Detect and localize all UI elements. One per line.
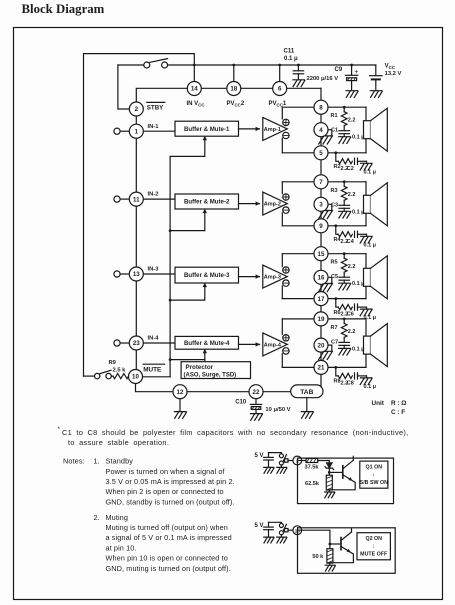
svg-text:IN-3: IN-3 xyxy=(148,267,160,273)
wire xyxy=(336,153,339,162)
svg-text:0.1 μ: 0.1 μ xyxy=(352,135,365,141)
junction xyxy=(278,64,281,67)
svg-text:+: + xyxy=(354,69,358,76)
svg-text:R3: R3 xyxy=(331,188,338,194)
svg-text:1: 1 xyxy=(135,128,139,135)
label MUTE (overlined) xyxy=(143,364,164,373)
buffer block Buffer & Mute-2 xyxy=(175,194,239,209)
wire output pin chain xyxy=(320,88,322,375)
transistor Q2 xyxy=(330,528,354,563)
pin 17 xyxy=(314,292,328,306)
svg-text:MUTE OFF: MUTE OFF xyxy=(360,552,388,558)
junction xyxy=(334,151,337,154)
svg-text:Unit: Unit xyxy=(372,400,385,407)
switch xyxy=(279,524,286,535)
switch xyxy=(279,454,286,465)
svg-text:37.5k: 37.5k xyxy=(305,465,320,471)
wire feedback loop left/top xyxy=(84,54,195,377)
capacitor C4 0.1u xyxy=(355,231,367,237)
wire xyxy=(280,535,282,537)
capacitor C6 0.1u xyxy=(355,304,367,310)
arrow into buffer 1 xyxy=(203,136,207,140)
wire xyxy=(328,277,332,283)
resistor 37.5k (box style) xyxy=(306,459,318,463)
svg-text:C10: C10 xyxy=(235,399,247,405)
svg-text:IN-1: IN-1 xyxy=(148,124,160,130)
wire 5V feed xyxy=(269,453,282,454)
svg-text:2.5 k: 2.5 k xyxy=(113,368,127,374)
svg-text:0.1 μ: 0.1 μ xyxy=(352,346,365,352)
pin 6 xyxy=(273,82,287,96)
wire pin 2 to PVcc row xyxy=(136,88,321,102)
input terminal IN-4 xyxy=(114,340,129,346)
wire output top xyxy=(282,181,366,183)
switch pole xyxy=(285,529,288,532)
wire xyxy=(351,65,353,75)
svg-text:14: 14 xyxy=(191,86,198,93)
svg-text:Buffer & Mute-3: Buffer & Mute-3 xyxy=(184,272,230,279)
wire buffer to amp xyxy=(239,343,260,345)
label STBY (overlined) xyxy=(147,102,165,111)
wire output bottom xyxy=(282,225,366,227)
wire output top xyxy=(282,253,366,255)
op-amp Amp-4 xyxy=(263,333,288,356)
svg-text:Block Diagram: Block Diagram xyxy=(22,2,105,16)
capacitor C11 xyxy=(293,71,303,80)
svg-text:15: 15 xyxy=(318,251,325,258)
resistor 62.5k (box style) xyxy=(326,475,332,490)
junction xyxy=(334,297,337,300)
junction xyxy=(334,366,337,369)
wire left pin chain xyxy=(135,102,137,370)
wire xyxy=(179,399,181,412)
junction xyxy=(169,358,172,361)
capacitor C5 0.1u xyxy=(339,277,350,283)
arrow into amp xyxy=(256,342,260,346)
wire xyxy=(343,126,345,131)
pin 4 xyxy=(314,123,328,137)
wire to protector xyxy=(204,360,206,362)
input terminal IN-1 xyxy=(114,128,129,134)
capacitor C7 0.1u xyxy=(339,342,350,348)
buffer block Buffer & Mute-4 xyxy=(175,336,239,349)
pin 18 xyxy=(227,82,241,96)
svg-text:50 k: 50 k xyxy=(312,554,324,560)
amp + output xyxy=(283,194,289,200)
ground xyxy=(360,378,372,385)
wire to mute switch xyxy=(84,375,95,377)
speaker SP1 xyxy=(364,107,388,153)
ground xyxy=(360,163,372,170)
resistor R1 2.2 xyxy=(341,112,347,126)
svg-text:18: 18 xyxy=(230,86,237,93)
wire riser pin 6 xyxy=(279,65,281,81)
capacitor xyxy=(264,457,274,467)
svg-text:Protector: Protector xyxy=(186,364,214,371)
wire xyxy=(318,461,330,463)
op-amp Amp-2 xyxy=(263,192,288,215)
wire xyxy=(336,299,339,308)
wire IN-3 to buffer xyxy=(143,273,175,275)
pin 13 xyxy=(129,267,143,281)
capacitor C10 (electrolytic) xyxy=(250,404,261,413)
svg-text:Amp-2: Amp-2 xyxy=(264,202,281,208)
svg-text:Standby: Standby xyxy=(106,457,134,466)
svg-text:(ASO, Surge, TSD): (ASO, Surge, TSD) xyxy=(184,373,237,379)
svg-text:Q1 ON: Q1 ON xyxy=(366,465,383,471)
svg-text:0.1 μ: 0.1 μ xyxy=(364,384,377,390)
ground xyxy=(360,309,372,316)
wire riser pin 21 xyxy=(320,375,322,392)
wire xyxy=(268,453,270,458)
svg-text:Buffer & Mute-2: Buffer & Mute-2 xyxy=(184,199,230,206)
wire xyxy=(328,204,332,210)
junction xyxy=(193,64,196,67)
capacitor C8 0.1u xyxy=(355,373,367,379)
wire xyxy=(375,65,377,75)
wire amp outputs xyxy=(281,107,283,153)
svg-text:2.2: 2.2 xyxy=(348,264,356,270)
wire switch to pin 2 xyxy=(118,65,129,109)
wire buffer to amp xyxy=(239,203,260,205)
switch pole xyxy=(285,459,288,462)
svg-text:C2: C2 xyxy=(347,166,354,172)
svg-text:Notes:: Notes: xyxy=(63,457,85,466)
svg-text:6: 6 xyxy=(278,86,282,93)
wire output bottom xyxy=(282,152,366,154)
pin 9 xyxy=(314,219,328,233)
svg-text:STBY: STBY xyxy=(147,105,164,112)
svg-text:0.1 μ: 0.1 μ xyxy=(352,281,365,287)
arrow into buffer xyxy=(203,283,207,287)
svg-text:10 μ/50 V: 10 μ/50 V xyxy=(265,407,290,413)
svg-text:62.5k: 62.5k xyxy=(305,481,320,487)
input terminal IN-3 xyxy=(114,271,129,277)
svg-text:0.1 μ: 0.1 μ xyxy=(364,242,377,248)
svg-text:R9: R9 xyxy=(109,360,117,366)
resistor R4 2.2 xyxy=(338,232,352,237)
pin 5 xyxy=(314,146,328,160)
pin 22 xyxy=(249,385,263,399)
pin 10 xyxy=(129,370,143,384)
svg-text:21: 21 xyxy=(318,365,325,372)
svg-text:Amp-1: Amp-1 xyxy=(264,127,281,133)
ground xyxy=(264,537,274,543)
wire bus branch xyxy=(170,210,205,230)
svg-text:R2: R2 xyxy=(334,164,341,170)
pin 19 xyxy=(314,312,328,326)
ground (mid pin) xyxy=(319,211,333,219)
label box Q2 xyxy=(357,533,390,560)
resistor R5 2.2 xyxy=(341,258,347,272)
pin 16 xyxy=(314,270,328,284)
svg-text:S/B SW ON: S/B SW ON xyxy=(360,480,388,486)
wire xyxy=(343,107,345,112)
junction xyxy=(350,64,353,67)
TAB pin xyxy=(291,385,323,398)
wire xyxy=(255,399,257,405)
wire xyxy=(328,490,330,492)
svg-text:17: 17 xyxy=(318,296,325,303)
wire bus branch xyxy=(170,284,205,300)
wire xyxy=(336,367,339,376)
ground TAB xyxy=(301,412,313,419)
svg-text:2.2: 2.2 xyxy=(348,118,356,124)
pin 15 xyxy=(314,247,328,261)
svg-text:R7: R7 xyxy=(331,325,338,331)
svg-text:5: 5 xyxy=(319,150,323,157)
svg-text:C9: C9 xyxy=(335,67,343,73)
wire riser pin 18 xyxy=(233,65,235,81)
wire IN-1 to buffer xyxy=(143,130,175,132)
wire IN-4 to buffer xyxy=(143,342,175,344)
ground xyxy=(251,414,263,421)
ground xyxy=(325,492,335,498)
svg-text:VCC: VCC xyxy=(385,64,396,71)
wire xyxy=(328,345,332,351)
junction xyxy=(329,543,332,546)
ground xyxy=(339,348,351,355)
arrow into amp xyxy=(256,201,260,205)
speaker SP2 xyxy=(364,182,388,226)
svg-text:C : F: C : F xyxy=(391,409,405,416)
wire xyxy=(328,130,332,136)
svg-text:to assure stable operation.: to assure stable operation. xyxy=(68,438,169,447)
wire xyxy=(288,529,293,531)
ground (mid pin) xyxy=(319,351,333,359)
capacitor xyxy=(264,527,274,537)
wire xyxy=(306,398,308,412)
svg-text:C6: C6 xyxy=(347,312,354,318)
svg-text:0.1 μ: 0.1 μ xyxy=(352,209,365,215)
svg-text:13.2 V: 13.2 V xyxy=(385,71,402,77)
svg-text:2200 μ/16 V: 2200 μ/16 V xyxy=(307,76,339,82)
svg-text:C8: C8 xyxy=(347,380,354,386)
speaker SP3 xyxy=(364,254,388,299)
svg-text:10: 10 xyxy=(132,374,139,381)
svg-text:IN-2: IN-2 xyxy=(148,192,159,198)
arrow into amp xyxy=(256,127,260,131)
wire output bottom xyxy=(282,298,366,300)
wire xyxy=(343,182,345,187)
svg-text:8: 8 xyxy=(319,104,323,111)
amp - output xyxy=(283,280,289,286)
svg-text:19: 19 xyxy=(318,316,325,323)
wire mute to bus xyxy=(143,376,171,378)
switch S2 (MUTE) xyxy=(95,370,112,379)
arrow into amp xyxy=(256,274,260,278)
svg-text:When pin 10 is open or connect: When pin 10 is open or connected to xyxy=(106,554,228,563)
svg-text:C1 to C8 should be polyester f: C1 to C8 should be polyester film capaci… xyxy=(62,428,408,437)
wire to base xyxy=(329,471,342,473)
svg-text:Amp-3: Amp-3 xyxy=(264,275,281,281)
wire amp outputs xyxy=(281,182,283,226)
ground pin 12 xyxy=(175,412,187,419)
resistor R8 2.2 xyxy=(338,373,352,378)
svg-text:4: 4 xyxy=(319,127,323,134)
wire xyxy=(280,465,282,467)
ground (mid pin) xyxy=(319,136,333,144)
ground xyxy=(339,137,351,144)
wire buffer to amp xyxy=(239,128,260,130)
junction xyxy=(169,299,172,302)
svg-text:PVCC2: PVCC2 xyxy=(227,101,245,108)
ground xyxy=(277,537,287,543)
svg-text:R : Ω: R : Ω xyxy=(391,400,406,407)
svg-text:0.1 μ: 0.1 μ xyxy=(364,169,377,175)
svg-text:TAB: TAB xyxy=(300,389,313,396)
wire amp outputs xyxy=(281,319,283,368)
junction xyxy=(232,64,235,67)
ground xyxy=(264,467,274,473)
svg-text:2.2: 2.2 xyxy=(348,329,356,335)
svg-text:5 V: 5 V xyxy=(255,523,264,529)
protector block xyxy=(181,362,250,379)
wire xyxy=(111,375,113,377)
capacitor C3 0.1u xyxy=(339,205,350,211)
op-amp Amp-1 xyxy=(263,117,288,140)
svg-text:0.1 μ: 0.1 μ xyxy=(364,315,377,321)
resistor R3 2.2 xyxy=(341,186,347,200)
capacitor C2 0.1u xyxy=(355,158,367,164)
label box Q1 xyxy=(360,461,388,488)
svg-text:3.5 V or 0.05 mA is impressed: 3.5 V or 0.05 mA is impressed at pin 2. xyxy=(106,477,235,486)
svg-text:Buffer & Mute-1: Buffer & Mute-1 xyxy=(184,126,230,133)
box xyxy=(298,528,396,574)
amp - output xyxy=(283,132,289,138)
resistor R6 2.2 xyxy=(338,305,352,310)
capacitor C9 (electrolytic) xyxy=(345,75,357,90)
junction xyxy=(343,252,346,255)
svg-text:Buffer & Mute-4: Buffer & Mute-4 xyxy=(184,340,230,347)
junction xyxy=(297,64,300,67)
pin 11 xyxy=(129,192,143,206)
wire xyxy=(297,65,299,71)
resistor R7 2.2 xyxy=(341,323,347,337)
wire bus branch xyxy=(170,351,205,360)
svg-text:When pin 2 is open or connecte: When pin 2 is open or connected to xyxy=(106,487,224,496)
wire xyxy=(268,522,270,527)
svg-text:2: 2 xyxy=(135,106,139,113)
wire xyxy=(298,530,330,549)
svg-text:IN VCC: IN VCC xyxy=(187,101,206,108)
ground xyxy=(293,80,305,87)
amp - output xyxy=(283,207,289,213)
junction xyxy=(328,471,331,474)
buffer block Buffer & Mute-1 xyxy=(175,121,239,136)
wire xyxy=(343,272,345,277)
wire to base xyxy=(330,543,341,545)
pin 21 xyxy=(314,360,328,374)
svg-text:GND, muting is turned on (outp: GND, muting is turned on (output off). xyxy=(106,564,231,573)
pin 14 xyxy=(187,82,201,96)
svg-text:11: 11 xyxy=(133,196,140,203)
arrow into buffer xyxy=(203,209,207,213)
wire output bottom xyxy=(282,366,366,368)
wire xyxy=(329,563,331,565)
svg-text:Muting is turned off (output o: Muting is turned off (output on) when xyxy=(106,523,228,532)
resistor 50k (box style) xyxy=(327,549,333,563)
svg-text:23: 23 xyxy=(133,340,140,347)
pin 7 xyxy=(314,175,328,189)
pin 8 xyxy=(314,100,328,114)
op-amp Amp-3 xyxy=(263,265,288,288)
box xyxy=(298,458,394,504)
arrow into buffer xyxy=(203,349,207,353)
speaker SP4 xyxy=(364,319,388,368)
svg-text:↓: ↓ xyxy=(372,472,375,478)
ground (mid pin) xyxy=(319,284,333,292)
wire xyxy=(328,472,330,475)
svg-text:2.2: 2.2 xyxy=(348,192,356,198)
pin 10 xyxy=(293,526,302,535)
buffer block Buffer & Mute-3 xyxy=(175,267,239,283)
svg-text:1.: 1. xyxy=(94,457,100,466)
wire riser pin 14 xyxy=(193,65,195,81)
wire control bus xyxy=(170,138,205,377)
svg-text:12: 12 xyxy=(177,389,184,396)
junction xyxy=(169,229,172,232)
wire xyxy=(343,200,345,205)
svg-text:C4: C4 xyxy=(347,239,355,245)
junction xyxy=(343,318,346,321)
svg-text:7: 7 xyxy=(319,179,323,186)
svg-text:Muting: Muting xyxy=(106,513,129,522)
wire xyxy=(343,254,345,259)
pin 20 xyxy=(314,338,328,352)
battery Vcc xyxy=(370,76,382,91)
svg-text:13: 13 xyxy=(133,271,140,278)
svg-text:R1: R1 xyxy=(331,113,338,119)
junction xyxy=(343,180,346,183)
wire xyxy=(343,319,345,324)
amp + output xyxy=(283,335,289,341)
svg-text:16: 16 xyxy=(318,275,325,282)
capacitor C1 0.1u xyxy=(339,131,350,137)
wire output top xyxy=(282,318,366,320)
svg-text:3: 3 xyxy=(319,202,323,209)
svg-text:22: 22 xyxy=(253,389,260,396)
svg-text:20: 20 xyxy=(318,342,325,349)
pin 12 xyxy=(173,385,187,399)
ground xyxy=(360,236,372,243)
wire xyxy=(298,460,307,462)
ground xyxy=(277,467,287,473)
resistor R9 xyxy=(113,374,129,379)
amp + output xyxy=(283,119,289,125)
wire xyxy=(343,337,345,342)
wire xyxy=(288,460,293,462)
zener diode xyxy=(325,463,334,473)
transistor Q1 xyxy=(329,456,355,490)
input terminal IN-2 xyxy=(114,196,129,202)
svg-text:PVCC1: PVCC1 xyxy=(269,101,287,108)
pin 1 xyxy=(129,124,143,138)
svg-text:R6: R6 xyxy=(334,310,341,316)
junction xyxy=(334,224,337,227)
pin 2 xyxy=(293,456,302,465)
svg-text:at pin 10.: at pin 10. xyxy=(106,543,137,552)
svg-text:C11: C11 xyxy=(284,49,295,55)
pin 23 xyxy=(129,336,143,350)
svg-text:R8: R8 xyxy=(334,379,341,385)
svg-text:Power is turned on when a sign: Power is turned on when a signal of xyxy=(106,467,226,476)
svg-text:GND, standby is turned on (out: GND, standby is turned on (output off). xyxy=(106,497,235,506)
junction xyxy=(343,106,346,109)
svg-text:R5: R5 xyxy=(331,260,338,266)
amp + output xyxy=(283,267,289,273)
svg-text:MUTE: MUTE xyxy=(143,367,162,374)
